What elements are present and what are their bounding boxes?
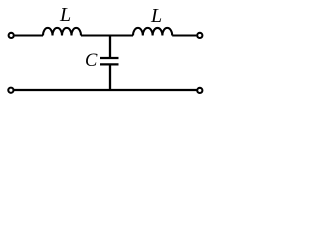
- terminal top-right: [197, 33, 202, 38]
- capacitor C bottom plate: [100, 63, 119, 65]
- label L (right inductor): [151, 5, 162, 28]
- wire: node to capacitor top plate: [109, 35, 111, 57]
- wire: L2 to top-right terminal: [172, 34, 196, 36]
- inductor L2: [133, 28, 172, 36]
- terminal bottom-right: [197, 88, 202, 93]
- wire: capacitor bottom plate to bottom rail: [109, 66, 111, 91]
- wire: bottom rail: [14, 89, 197, 91]
- label C (capacitor): [85, 51, 97, 72]
- wire: top-left terminal to L1: [15, 34, 43, 36]
- label L (left inductor): [60, 4, 71, 27]
- terminal top-left: [9, 33, 14, 38]
- inductor L1: [43, 28, 81, 36]
- capacitor C top plate: [100, 57, 119, 59]
- terminal bottom-left: [8, 88, 13, 93]
- wire: L1 to L2 (through node): [81, 34, 133, 36]
